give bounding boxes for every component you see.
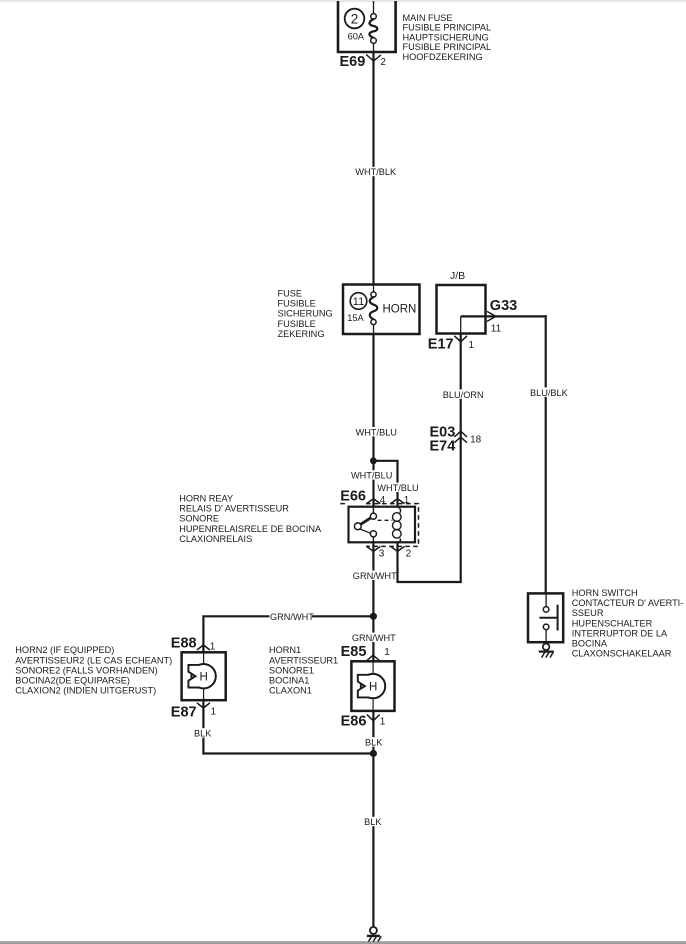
fuse 11 circled — [350, 293, 367, 310]
svg-text:HORN SWITCH: HORN SWITCH — [572, 588, 638, 598]
wire label GRN/WHT branch — [269, 611, 314, 621]
connector E86 chevron — [367, 715, 380, 721]
wire BLU/ORN vertical — [460, 334, 462, 584]
horn switch ground — [539, 644, 554, 658]
svg-text:1: 1 — [404, 495, 410, 506]
wire branch to horn2 — [203, 616, 373, 652]
svg-text:1: 1 — [384, 647, 390, 658]
svg-text:FUSIBLE PRINCIPAL: FUSIBLE PRINCIPAL — [403, 23, 492, 33]
horn switch box — [528, 593, 563, 642]
svg-text:1: 1 — [211, 707, 217, 718]
main fuse box E69 (top, cut off) — [337, 1, 397, 52]
svg-text:FUSE: FUSE — [278, 288, 303, 298]
svg-text:BOCINA1: BOCINA1 — [269, 676, 309, 686]
svg-text:CLAXION2 (INDIEN UITGERUST): CLAXION2 (INDIEN UITGERUST) — [15, 686, 156, 696]
wire BLU/BLK vertical — [545, 315, 547, 593]
main fuse element (wavy) — [370, 1, 378, 52]
wire label WHT/BLU upper — [355, 427, 397, 437]
relay pin3 chevron — [367, 546, 381, 551]
svg-text:FUSIBLE PRINCIPAL: FUSIBLE PRINCIPAL — [403, 42, 492, 52]
svg-text:BLU/BLK: BLU/BLK — [530, 388, 569, 398]
wire WHT/BLU fuse to relay pin4 — [372, 334, 374, 507]
wire label BLU/ORN upper — [442, 389, 484, 400]
fuse text block — [278, 288, 333, 339]
connector E87 chevron — [197, 703, 210, 708]
horn relay text block — [179, 493, 322, 544]
svg-text:E86: E86 — [341, 714, 367, 730]
page top edge — [0, 0, 686, 2]
horn2 text block — [15, 645, 172, 695]
svg-text:RELAIS D' AVERTISSEUR: RELAIS D' AVERTISSEUR — [179, 504, 289, 514]
relay mechanical link dashed — [378, 519, 393, 521]
svg-text:GRN/WHT: GRN/WHT — [353, 571, 397, 581]
svg-text:H: H — [200, 672, 208, 684]
svg-text:E74: E74 — [430, 439, 456, 455]
connector G33 chevron — [487, 311, 496, 321]
horn1 box — [351, 661, 394, 711]
wire G33 horizontal — [461, 315, 547, 317]
svg-text:AVERTISSEUR2 (LE CAS ECHEANT): AVERTISSEUR2 (LE CAS ECHEANT) — [15, 655, 172, 665]
main fuse text block — [403, 13, 492, 62]
svg-text:SSEUR: SSEUR — [572, 608, 604, 618]
svg-text:WHT/BLK: WHT/BLK — [355, 167, 397, 177]
svg-text:WHT/BLU: WHT/BLU — [351, 471, 392, 481]
svg-text:2: 2 — [351, 11, 359, 26]
wire horn1 to ground — [372, 711, 374, 927]
svg-text:E85: E85 — [341, 644, 367, 660]
svg-text:BLK: BLK — [194, 729, 212, 739]
wire label WHT/BLU left — [350, 470, 392, 480]
ground symbol bottom — [367, 927, 381, 942]
wire horn2 bottom BLK — [203, 700, 373, 753]
J/B box — [437, 285, 486, 334]
relay box E66 — [349, 507, 416, 543]
svg-text:HUPENRELAISRELE DE BOCINA: HUPENRELAISRELE DE BOCINA — [179, 524, 322, 534]
connector E88 chevron — [197, 645, 210, 650]
svg-text:ZEKERING: ZEKERING — [278, 329, 325, 339]
connector E03/E74 double chevron — [454, 431, 467, 442]
svg-text:E17: E17 — [428, 337, 454, 353]
svg-text:BOCINA2(DE EQUIPARSE): BOCINA2(DE EQUIPARSE) — [15, 676, 130, 686]
svg-text:BLU/ORN: BLU/ORN — [443, 390, 484, 400]
junction dot horn branch — [370, 613, 377, 620]
svg-text:SONORE2 (FALLS VORHANDEN): SONORE2 (FALLS VORHANDEN) — [15, 665, 157, 675]
horn switch contacts — [539, 593, 557, 642]
horn1 text block — [269, 645, 338, 695]
svg-text:WHT/BLU: WHT/BLU — [377, 483, 418, 493]
svg-text:HORN2 (IF EQUIPPED): HORN2 (IF EQUIPPED) — [15, 645, 114, 655]
svg-text:1: 1 — [380, 717, 386, 728]
svg-text:SONORE: SONORE — [179, 514, 219, 524]
wire label GRN/WHT above horn1 — [351, 633, 396, 643]
svg-text:H: H — [369, 681, 377, 693]
relay connector dashed frame — [340, 504, 418, 547]
junction dot ground — [370, 750, 377, 757]
wire label GRN/WHT below relay — [352, 571, 397, 581]
svg-text:11: 11 — [491, 324, 502, 335]
svg-text:HAUPTSICHERUNG: HAUPTSICHERUNG — [403, 32, 489, 42]
connector E69 chevron — [366, 55, 381, 61]
svg-text:HORN1: HORN1 — [269, 645, 301, 655]
svg-text:2: 2 — [380, 57, 386, 68]
svg-text:GRN/WHT: GRN/WHT — [352, 633, 396, 643]
svg-text:E88: E88 — [171, 636, 197, 652]
svg-text:FUSIBLE: FUSIBLE — [278, 299, 316, 309]
svg-text:AVERTISSEUR1: AVERTISSEUR1 — [269, 655, 338, 665]
svg-text:J/B: J/B — [450, 270, 465, 282]
main fuse symbol: circled 2 — [345, 9, 365, 29]
svg-text:CLAXON1: CLAXON1 — [269, 686, 312, 696]
svg-text:GRN/WHT: GRN/WHT — [270, 612, 314, 622]
svg-text:HUPENSCHALTER: HUPENSCHALTER — [572, 618, 653, 628]
wire label BLK bottom — [364, 817, 385, 827]
wire label BLU/BLK — [529, 387, 571, 398]
svg-text:11: 11 — [353, 296, 364, 308]
svg-text:BLK: BLK — [365, 738, 383, 748]
svg-text:HORN: HORN — [383, 304, 417, 316]
svg-text:3: 3 — [379, 549, 385, 560]
page bottom edge — [0, 941, 686, 944]
svg-text:1: 1 — [210, 642, 216, 653]
wire label BLK left — [193, 728, 214, 738]
svg-text:4: 4 — [380, 495, 386, 506]
svg-text:G33: G33 — [490, 298, 517, 314]
J/B internal wire — [460, 316, 462, 333]
horn2 box — [182, 652, 226, 700]
svg-text:18: 18 — [470, 435, 482, 446]
horn1 symbol — [358, 661, 385, 711]
horn switch text block — [572, 588, 684, 659]
relay pin4 chevron — [367, 499, 381, 504]
svg-text:INTERRUPTOR DE LA: INTERRUPTOR DE LA — [572, 628, 668, 638]
svg-text:CLAXIONRELAIS: CLAXIONRELAIS — [179, 534, 252, 544]
svg-text:FUSIBLE: FUSIBLE — [278, 319, 316, 329]
svg-text:E87: E87 — [171, 705, 197, 721]
wire label WHT/BLK — [355, 167, 398, 177]
wire relay pin2 to BLU/ORN — [398, 542, 461, 582]
svg-text:SONORE1: SONORE1 — [269, 665, 314, 675]
svg-text:WHT/BLU: WHT/BLU — [356, 427, 397, 437]
fuse element (wavy) — [370, 285, 378, 335]
connector E17 chevron — [454, 336, 467, 342]
wire branch to relay pin1 — [373, 461, 397, 507]
wire relay pin3 GRN/WHT down — [372, 542, 374, 661]
relay switch contacts — [354, 507, 376, 543]
svg-text:BOCINA: BOCINA — [572, 639, 608, 649]
relay coil — [393, 507, 402, 543]
svg-text:E69: E69 — [340, 54, 366, 70]
connector E85 chevron — [367, 655, 380, 661]
relay pin2 chevron — [391, 546, 405, 551]
svg-text:SICHERUNG: SICHERUNG — [278, 309, 333, 319]
relay pin1 chevron — [391, 499, 405, 504]
junction dot relay branch — [370, 457, 377, 464]
wire label BLK mid — [364, 737, 385, 747]
wire main vertical WHT/BLK — [372, 52, 374, 285]
svg-text:E66: E66 — [340, 489, 366, 505]
wire label WHT/BLU right — [377, 483, 419, 493]
svg-text:CONTACTEUR D' AVERTI-: CONTACTEUR D' AVERTI- — [572, 598, 684, 608]
svg-text:HOOFDZEKERING: HOOFDZEKERING — [403, 52, 483, 62]
svg-text:2: 2 — [406, 549, 412, 560]
svg-text:60A: 60A — [348, 32, 365, 42]
svg-text:MAIN FUSE: MAIN FUSE — [403, 13, 453, 23]
svg-text:15A: 15A — [347, 313, 364, 323]
horn2 symbol — [188, 652, 215, 700]
svg-text:1: 1 — [469, 340, 475, 351]
svg-text:BLK: BLK — [364, 817, 382, 827]
fuse box (HORN 15A) — [343, 285, 420, 335]
svg-text:HORN REAY: HORN REAY — [179, 493, 233, 503]
svg-text:CLAXONSCHAKELAAR: CLAXONSCHAKELAAR — [572, 649, 672, 659]
